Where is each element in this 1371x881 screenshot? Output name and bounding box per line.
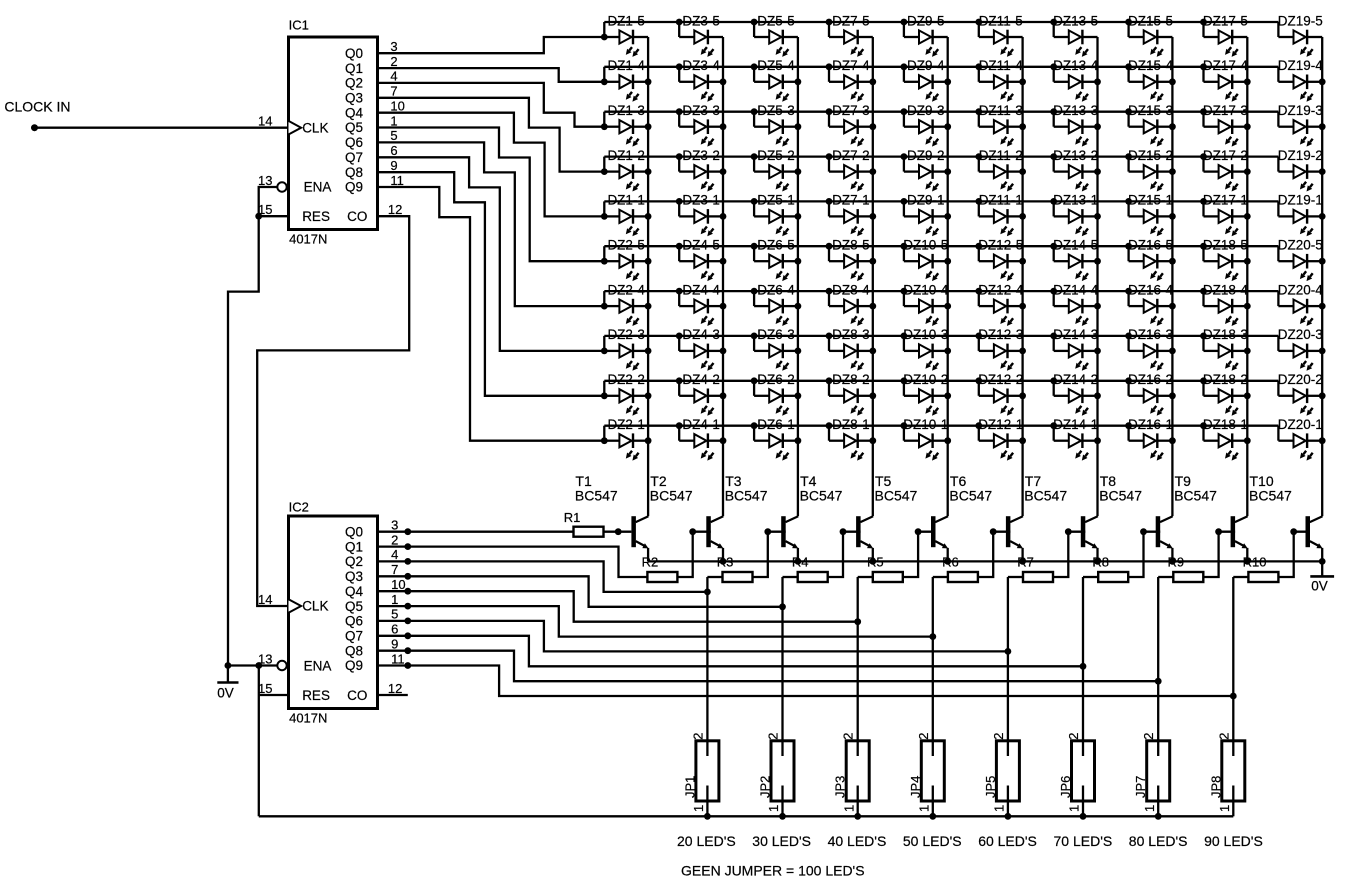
svg-text:DZ18-2: DZ18-2 — [1203, 372, 1248, 387]
junction Q6 to JP5 riser — [1005, 648, 1012, 655]
wire R3 left approach — [707, 576, 722, 578]
transistor T4 BC547 — [800, 473, 874, 561]
LED DZ6-2 — [751, 372, 802, 416]
wire R10 to base riser — [1278, 532, 1293, 577]
wire emitter 0V rail — [648, 560, 1322, 562]
LED DZ8-1 — [826, 417, 877, 461]
svg-text:Q2: Q2 — [345, 76, 363, 91]
LED DZ4-3 — [676, 327, 727, 371]
svg-text:DZ15-5: DZ15-5 — [1128, 13, 1173, 28]
wire riser JP5 / R7 — [1007, 577, 1009, 756]
svg-text:DZ10-3: DZ10-3 — [903, 327, 948, 342]
wire R6 to base riser — [978, 532, 993, 577]
svg-text:R2: R2 — [642, 554, 659, 569]
svg-text:DZ16-3: DZ16-3 — [1128, 327, 1173, 342]
svg-text:DZ15-3: DZ15-3 — [1128, 103, 1173, 118]
LED DZ18-3 — [1200, 327, 1251, 371]
LED DZ2-5 — [604, 238, 651, 282]
wire IC2 Q2 to R3 and JP1 — [378, 561, 708, 592]
junction T8 emitter on rail — [1169, 558, 1176, 565]
LED DZ1-1 — [604, 193, 651, 237]
LED DZ5-4 — [751, 58, 802, 102]
transistor T1 BC547 — [575, 473, 649, 561]
wire anode bus row 7 — [604, 290, 1278, 292]
LED DZ1-3 — [604, 103, 651, 147]
node CLOCK IN terminal — [31, 124, 38, 131]
svg-text:JP4: JP4 — [908, 776, 923, 798]
svg-text:BC547: BC547 — [1024, 487, 1067, 503]
svg-text:Q7: Q7 — [345, 629, 363, 644]
svg-text:CLK: CLK — [302, 599, 328, 614]
wire R4 left approach — [783, 576, 798, 578]
svg-text:DZ4-5: DZ4-5 — [682, 238, 720, 253]
wire cathode column 5 — [947, 37, 949, 516]
svg-text:BC547: BC547 — [1174, 487, 1217, 503]
transistor T10 BC547 — [1249, 473, 1323, 561]
svg-text:Q3: Q3 — [345, 569, 363, 584]
svg-text:2: 2 — [991, 733, 1006, 740]
LED DZ13-1 — [1050, 193, 1101, 237]
IC2 CLK input triangle — [289, 599, 302, 613]
LED DZ5-2 — [751, 148, 802, 192]
svg-text:JP1: JP1 — [682, 776, 697, 798]
svg-text:DZ7-5: DZ7-5 — [832, 13, 870, 28]
wire anode bus row 8 — [604, 335, 1278, 337]
svg-text:DZ19-4: DZ19-4 — [1278, 58, 1324, 73]
svg-text:DZ18-3: DZ18-3 — [1203, 327, 1248, 342]
svg-text:DZ8-4: DZ8-4 — [832, 282, 870, 297]
wire riser JP2 / R4 — [781, 577, 783, 756]
svg-text:DZ11-3: DZ11-3 — [979, 103, 1023, 118]
svg-text:11: 11 — [390, 173, 404, 188]
svg-text:DZ7-1: DZ7-1 — [832, 193, 870, 208]
svg-text:GEEN JUMPER = 100 LED'S: GEEN JUMPER = 100 LED'S — [681, 863, 865, 879]
svg-text:DZ15-1: DZ15-1 — [1128, 193, 1173, 208]
svg-text:DZ17-2: DZ17-2 — [1203, 148, 1248, 163]
svg-text:Q6: Q6 — [345, 614, 363, 629]
svg-text:3: 3 — [390, 39, 397, 54]
junction T3 base — [764, 528, 771, 535]
svg-text:DZ3-4: DZ3-4 — [682, 58, 720, 73]
LED DZ15-1 — [1125, 193, 1176, 237]
svg-text:DZ3-3: DZ3-3 — [682, 103, 720, 118]
svg-text:Q8: Q8 — [345, 165, 363, 180]
wire IC1 ENA pin 13 to RES pin 15 tie — [259, 187, 289, 216]
junction JP1 pin 1 on rail — [704, 813, 711, 820]
jumper JP3 — [833, 733, 870, 817]
svg-text:JP3: JP3 — [833, 776, 848, 798]
svg-text:CLK: CLK — [302, 120, 328, 135]
wire cathode column 8 — [1171, 37, 1173, 516]
LED DZ2-2 — [604, 372, 651, 416]
svg-text:DZ9-1: DZ9-1 — [907, 193, 945, 208]
LED DZ4-1 — [676, 417, 727, 461]
wire R4 riser to T4 base — [843, 531, 861, 533]
wire IC2 ENA to RES and bottom rail — [258, 666, 260, 817]
svg-text:Q4: Q4 — [345, 105, 364, 120]
wire cathode column 1 — [647, 37, 649, 516]
svg-text:10: 10 — [390, 99, 404, 114]
svg-text:DZ7-3: DZ7-3 — [832, 103, 870, 118]
ground left 0V — [217, 666, 238, 701]
LED DZ5-5 — [751, 13, 798, 57]
svg-text:15: 15 — [258, 681, 272, 696]
wire anode bus row 5 — [604, 200, 1278, 202]
LED DZ19-2 — [1278, 148, 1326, 192]
svg-text:DZ9-2: DZ9-2 — [907, 148, 945, 163]
LED DZ20-5 — [1278, 238, 1326, 282]
junction IC2 Q0 pin — [404, 528, 411, 535]
svg-text:DZ17-1: DZ17-1 — [1203, 193, 1248, 208]
svg-text:30 LED'S: 30 LED'S — [752, 833, 811, 849]
svg-text:DZ8-2: DZ8-2 — [832, 372, 870, 387]
svg-text:DZ3-1: DZ3-1 — [682, 193, 720, 208]
svg-text:DZ19-1: DZ19-1 — [1278, 193, 1323, 208]
svg-text:DZ13-2: DZ13-2 — [1053, 148, 1098, 163]
svg-text:DZ18-5: DZ18-5 — [1203, 238, 1248, 253]
svg-text:7: 7 — [391, 562, 398, 577]
LED DZ17-5 — [1200, 13, 1248, 57]
wire anode bus row 10 — [604, 425, 1278, 427]
svg-text:DZ13-1: DZ13-1 — [1053, 193, 1098, 208]
svg-text:DZ12-3: DZ12-3 — [978, 327, 1023, 342]
wire R7 riser to T7 base — [1068, 531, 1085, 533]
jumper JP2 — [758, 733, 795, 817]
jumper JP6 — [1058, 733, 1095, 817]
jumper JP1 — [682, 733, 719, 817]
IC1 ENA inversion circle pin 13 — [277, 182, 286, 191]
junction row 6 column 1 — [601, 258, 608, 265]
LED DZ14-2 — [1050, 372, 1101, 416]
LED DZ1-5 — [604, 13, 648, 57]
LED DZ4-2 — [676, 372, 727, 416]
junction IC2 Q3 pin — [404, 573, 411, 580]
LED DZ18-2 — [1200, 372, 1251, 416]
svg-text:DZ13-4: DZ13-4 — [1053, 58, 1099, 73]
svg-text:4017N: 4017N — [289, 711, 327, 726]
svg-text:DZ3-5: DZ3-5 — [682, 13, 720, 28]
wire R2 to base riser — [677, 532, 692, 577]
wire R7 left approach — [1008, 576, 1023, 578]
wire IC1 CO pin 12 to IC2 CLK pin 14 — [257, 216, 409, 606]
svg-text:11: 11 — [391, 651, 405, 666]
junction IC2 Q4 pin — [404, 588, 411, 595]
junction row 5 column 1 — [601, 213, 608, 220]
LED DZ4-5 — [676, 238, 727, 282]
LED DZ18-4 — [1200, 282, 1251, 326]
wire IC1 Q6 to LED row 7 — [378, 142, 605, 306]
wire IC1 Q9 to LED row 10 — [378, 187, 605, 441]
LED DZ8-5 — [826, 238, 877, 282]
wire R9 to base riser — [1203, 532, 1218, 577]
svg-text:Q7: Q7 — [345, 150, 363, 165]
wire IC1 Q8 to LED row 9 — [378, 172, 605, 396]
svg-text:IC2: IC2 — [289, 500, 309, 515]
junction T4 base — [840, 528, 847, 535]
svg-text:DZ14-4: DZ14-4 — [1053, 282, 1099, 297]
svg-text:1: 1 — [1142, 805, 1157, 812]
IC2 CO pin 12 stub — [378, 694, 408, 696]
wire R8 riser to T8 base — [1144, 531, 1161, 533]
svg-text:DZ6-4: DZ6-4 — [757, 282, 795, 297]
svg-text:12: 12 — [388, 681, 402, 696]
junction row 2 column 1 — [601, 78, 608, 85]
svg-text:DZ12-4: DZ12-4 — [978, 282, 1024, 297]
svg-text:Q8: Q8 — [345, 643, 363, 658]
wire R8 to base riser — [1128, 532, 1143, 577]
wire IC2 Q4 to R5 and JP3 — [378, 591, 858, 622]
svg-text:DZ5-5: DZ5-5 — [757, 13, 795, 28]
LED DZ19-3 — [1278, 103, 1326, 147]
wire anode bus row 1 — [604, 21, 1278, 23]
svg-text:DZ6-5: DZ6-5 — [757, 238, 795, 253]
wire IC2 ENA pin 13 to ground — [228, 664, 277, 666]
svg-text:DZ19-5: DZ19-5 — [1278, 13, 1323, 28]
svg-text:IC1: IC1 — [289, 18, 309, 33]
wire R7 to base riser — [1053, 532, 1068, 577]
svg-text:9: 9 — [391, 637, 398, 652]
wire cathode column 2 — [722, 37, 724, 516]
wire R2 riser to T2 base — [693, 531, 711, 533]
transistor T6 BC547 — [949, 473, 1023, 561]
svg-text:2: 2 — [1216, 733, 1231, 740]
svg-text:DZ20-4: DZ20-4 — [1278, 282, 1324, 297]
wire anode bus row 3 — [604, 111, 1278, 113]
LED DZ10-4 — [901, 282, 952, 326]
svg-text:0V: 0V — [217, 686, 234, 701]
resistor R1 — [564, 510, 604, 537]
jumper JP4 — [908, 733, 945, 817]
LED DZ7-2 — [826, 148, 877, 192]
svg-text:4: 4 — [391, 547, 398, 562]
svg-text:DZ7-4: DZ7-4 — [832, 58, 870, 73]
svg-text:DZ20-2: DZ20-2 — [1278, 372, 1323, 387]
svg-text:DZ11-2: DZ11-2 — [979, 148, 1023, 163]
svg-text:DZ14-2: DZ14-2 — [1053, 372, 1098, 387]
svg-text:1: 1 — [391, 592, 398, 607]
svg-text:DZ10-2: DZ10-2 — [903, 372, 948, 387]
svg-text:DZ13-5: DZ13-5 — [1053, 13, 1098, 28]
svg-text:DZ8-1: DZ8-1 — [832, 417, 870, 432]
wire cathode column 6 — [1021, 37, 1023, 516]
junction IC2 Q2 pin — [404, 558, 411, 565]
svg-text:DZ4-3: DZ4-3 — [682, 327, 720, 342]
svg-text:14: 14 — [258, 592, 272, 607]
svg-text:4017N: 4017N — [289, 232, 327, 247]
svg-text:DZ4-2: DZ4-2 — [682, 372, 720, 387]
svg-text:DZ14-1: DZ14-1 — [1053, 417, 1098, 432]
resistor R3 — [717, 554, 753, 582]
svg-text:DZ6-2: DZ6-2 — [757, 372, 795, 387]
LED DZ6-3 — [751, 327, 802, 371]
junction row 10 column 1 — [601, 437, 608, 444]
junction T7 base — [1065, 528, 1072, 535]
svg-text:2: 2 — [1066, 733, 1081, 740]
svg-text:14: 14 — [258, 114, 272, 129]
LED DZ14-5 — [1050, 238, 1101, 282]
svg-text:4: 4 — [390, 69, 397, 84]
svg-text:2: 2 — [391, 532, 398, 547]
svg-text:50 LED'S: 50 LED'S — [903, 833, 962, 849]
LED DZ10-1 — [901, 417, 952, 461]
resistor R2 — [642, 554, 678, 582]
svg-text:R7: R7 — [1017, 554, 1034, 569]
wire IC2 Q8 to R9 and JP7 — [378, 651, 1159, 682]
LED DZ8-4 — [826, 282, 877, 326]
svg-text:20 LED'S: 20 LED'S — [677, 833, 736, 849]
LED DZ18-5 — [1200, 238, 1251, 282]
LED DZ11-4 — [975, 58, 1026, 102]
junction IC2 ENA-RES tie — [255, 662, 262, 669]
svg-text:Q5: Q5 — [345, 120, 363, 135]
svg-text:R5: R5 — [867, 554, 884, 569]
svg-text:DZ11-5: DZ11-5 — [979, 13, 1023, 28]
LED DZ1-4 — [604, 58, 651, 102]
LED DZ7-4 — [826, 58, 877, 102]
wire anode bus row 9 — [604, 380, 1278, 382]
junction Q2 to JP1 riser — [704, 589, 711, 596]
LED DZ16-3 — [1125, 327, 1176, 371]
svg-text:JP8: JP8 — [1208, 776, 1223, 798]
jumper JP5 — [983, 733, 1020, 817]
svg-text:Q6: Q6 — [345, 135, 363, 150]
wire riser JP4 / R6 — [932, 577, 934, 756]
svg-text:DZ16-4: DZ16-4 — [1128, 282, 1174, 297]
wire R9 left approach — [1158, 576, 1173, 578]
svg-text:90 LED'S: 90 LED'S — [1204, 833, 1263, 849]
ground right 0V — [1310, 561, 1334, 593]
svg-text:DZ1-2: DZ1-2 — [607, 148, 645, 163]
LED DZ12-3 — [975, 327, 1026, 371]
LED DZ8-3 — [826, 327, 877, 371]
svg-text:R8: R8 — [1092, 554, 1109, 569]
svg-text:2: 2 — [766, 733, 781, 740]
LED DZ10-3 — [901, 327, 952, 371]
svg-text:2: 2 — [390, 54, 397, 69]
svg-text:JP5: JP5 — [983, 776, 998, 798]
LED DZ19-4 — [1278, 58, 1326, 102]
wire cathode column 4 — [872, 37, 874, 516]
LED DZ10-5 — [901, 238, 952, 282]
svg-text:DZ11-4: DZ11-4 — [979, 58, 1024, 73]
LED DZ2-4 — [604, 282, 651, 326]
LED DZ16-2 — [1125, 372, 1176, 416]
junction T4 emitter on rail — [869, 558, 876, 565]
svg-text:RES: RES — [302, 688, 330, 703]
junction row 8 column 1 — [601, 348, 608, 355]
junction T5 base — [915, 528, 922, 535]
svg-text:DZ5-4: DZ5-4 — [757, 58, 795, 73]
wire R10 riser to T10 base — [1294, 531, 1310, 533]
svg-text:R9: R9 — [1168, 554, 1185, 569]
wire R3 to base riser — [753, 532, 768, 577]
svg-text:Q4: Q4 — [345, 584, 364, 599]
svg-text:BC547: BC547 — [875, 487, 918, 503]
junction T9 base — [1215, 528, 1222, 535]
svg-text:R6: R6 — [942, 554, 959, 569]
svg-text:2: 2 — [841, 733, 856, 740]
junction T2 base — [689, 528, 696, 535]
svg-text:1: 1 — [1067, 805, 1082, 812]
svg-text:80 LED'S: 80 LED'S — [1129, 833, 1188, 849]
resistor R7 — [1017, 554, 1053, 582]
wire bottom jumper common rail — [259, 815, 1234, 817]
svg-text:DZ18-1: DZ18-1 — [1203, 417, 1248, 432]
LED DZ13-3 — [1050, 103, 1101, 147]
svg-text:R4: R4 — [792, 554, 809, 569]
svg-text:DZ20-5: DZ20-5 — [1278, 238, 1323, 253]
svg-text:DZ7-2: DZ7-2 — [832, 148, 870, 163]
svg-text:DZ20-1: DZ20-1 — [1278, 417, 1323, 432]
svg-text:Q9: Q9 — [345, 180, 363, 195]
LED DZ20-3 — [1278, 327, 1326, 371]
junction T9 emitter on rail — [1244, 558, 1251, 565]
LED DZ13-5 — [1050, 13, 1098, 57]
svg-text:DZ16-1: DZ16-1 — [1128, 417, 1173, 432]
LED DZ17-4 — [1200, 58, 1251, 102]
svg-text:DZ19-3: DZ19-3 — [1278, 103, 1323, 118]
wire riser JP1 / R3 — [706, 577, 708, 756]
LED DZ20-4 — [1278, 282, 1326, 326]
junction T8 base — [1140, 528, 1147, 535]
svg-text:DZ1-5: DZ1-5 — [607, 13, 645, 28]
wire R6 left approach — [933, 576, 948, 578]
LED DZ3-2 — [676, 148, 727, 192]
svg-text:DZ16-5: DZ16-5 — [1128, 238, 1173, 253]
wire IC1 Q4 to LED row 5 — [378, 113, 605, 217]
wire R8 left approach — [1083, 576, 1098, 578]
svg-text:ENA: ENA — [304, 658, 332, 673]
wire anode bus row 6 — [604, 245, 1278, 247]
svg-text:DZ9-5: DZ9-5 — [907, 13, 945, 28]
wire R3 riser to T3 base — [768, 531, 786, 533]
transistor T8 BC547 — [1099, 473, 1173, 561]
junction IC1 RES node — [255, 213, 262, 220]
LED DZ9-2 — [901, 148, 952, 192]
LED DZ1-2 — [604, 148, 651, 192]
wire R9 riser to T9 base — [1219, 531, 1236, 533]
svg-text:DZ16-2: DZ16-2 — [1128, 372, 1173, 387]
junction Q5 to JP4 riser — [929, 633, 936, 640]
wire R5 left approach — [858, 576, 873, 578]
wire IC2 Q6 to R7 and JP5 — [378, 621, 1008, 652]
svg-text:5: 5 — [391, 607, 398, 622]
svg-text:2: 2 — [690, 733, 705, 740]
LED DZ11-2 — [975, 148, 1026, 192]
LED DZ16-4 — [1125, 282, 1176, 326]
svg-text:DZ13-3: DZ13-3 — [1053, 103, 1098, 118]
LED DZ9-5 — [901, 13, 948, 57]
junction JP4 pin 1 on rail — [929, 813, 936, 820]
junction IC2 Q7 pin — [404, 632, 411, 639]
wire cathode column 7 — [1096, 37, 1098, 516]
LED DZ2-3 — [604, 327, 651, 371]
wire R5 riser to T5 base — [918, 531, 935, 533]
LED DZ13-4 — [1050, 58, 1101, 102]
svg-text:DZ5-2: DZ5-2 — [757, 148, 795, 163]
wire R4 to base riser — [828, 532, 843, 577]
junction T6 emitter on rail — [1019, 558, 1026, 565]
svg-text:1: 1 — [992, 805, 1007, 812]
svg-text:1: 1 — [1217, 805, 1232, 812]
svg-text:Q0: Q0 — [345, 524, 363, 539]
junction row 3 column 1 — [601, 123, 608, 130]
svg-text:DZ2-1: DZ2-1 — [607, 417, 645, 432]
svg-text:DZ9-4: DZ9-4 — [907, 58, 945, 73]
junction JP5 pin 1 on rail — [1005, 813, 1012, 820]
junction row 4 column 1 — [601, 168, 608, 175]
wire R1 to T1 base — [603, 531, 631, 533]
